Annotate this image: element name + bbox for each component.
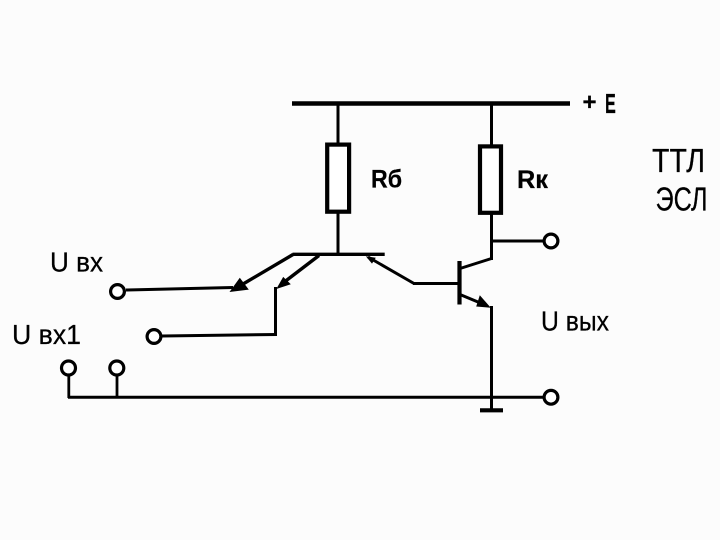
wire rail to R6 top [337,103,340,145]
terminal lower output [544,390,558,404]
resistor R6 [327,145,349,212]
transistor T1 base bar [293,253,385,256]
transistor T2 emitter lead with arrow [460,295,491,308]
transistor T2 base bar [457,261,461,305]
wire collector to output terminal [492,240,544,243]
bottom common wire [68,396,544,399]
transistor T1 emitter 2 [276,256,319,290]
wire riser U in1 to emitter 2 [274,287,277,336]
stub terminal A [67,376,70,399]
wire U in to emitter 1 [126,288,233,291]
transistor T2 collector lead [460,259,492,269]
wire U in1 horizontal [162,335,277,337]
svg-text:E: E [605,87,616,119]
wire R6 bottom to T1 base bar [337,212,340,256]
ground [480,408,503,412]
transistor T1 collector lead with arrow [366,256,414,283]
svg-text:Rб: Rб [371,166,402,194]
terminal bottom A [62,361,76,375]
svg-text:U вх1: U вх1 [12,319,81,350]
wire T1 collector to T2 base [413,282,458,285]
wire Rk bottom to T2 collector [490,213,493,260]
stub terminal B [116,376,119,399]
svg-text:ТТЛ: ТТЛ [652,142,705,179]
wire rail to Rk top [490,103,493,147]
wire T2 emitter down to ground [490,306,493,409]
terminal upper output [544,234,558,248]
label +E [583,87,616,119]
power rail +E [292,101,570,106]
transistor T1 emitter 1 [230,255,294,293]
terminal U in1 [147,330,161,344]
terminal U in [111,285,125,299]
svg-text:U вх: U вх [50,247,103,278]
resistor Rk [480,146,501,212]
svg-text:+: + [583,89,597,116]
svg-text:U вых: U вых [541,306,609,337]
svg-text:Rк: Rк [517,166,548,194]
svg-text:ЭСЛ: ЭСЛ [656,181,708,218]
terminal bottom B [110,361,124,375]
